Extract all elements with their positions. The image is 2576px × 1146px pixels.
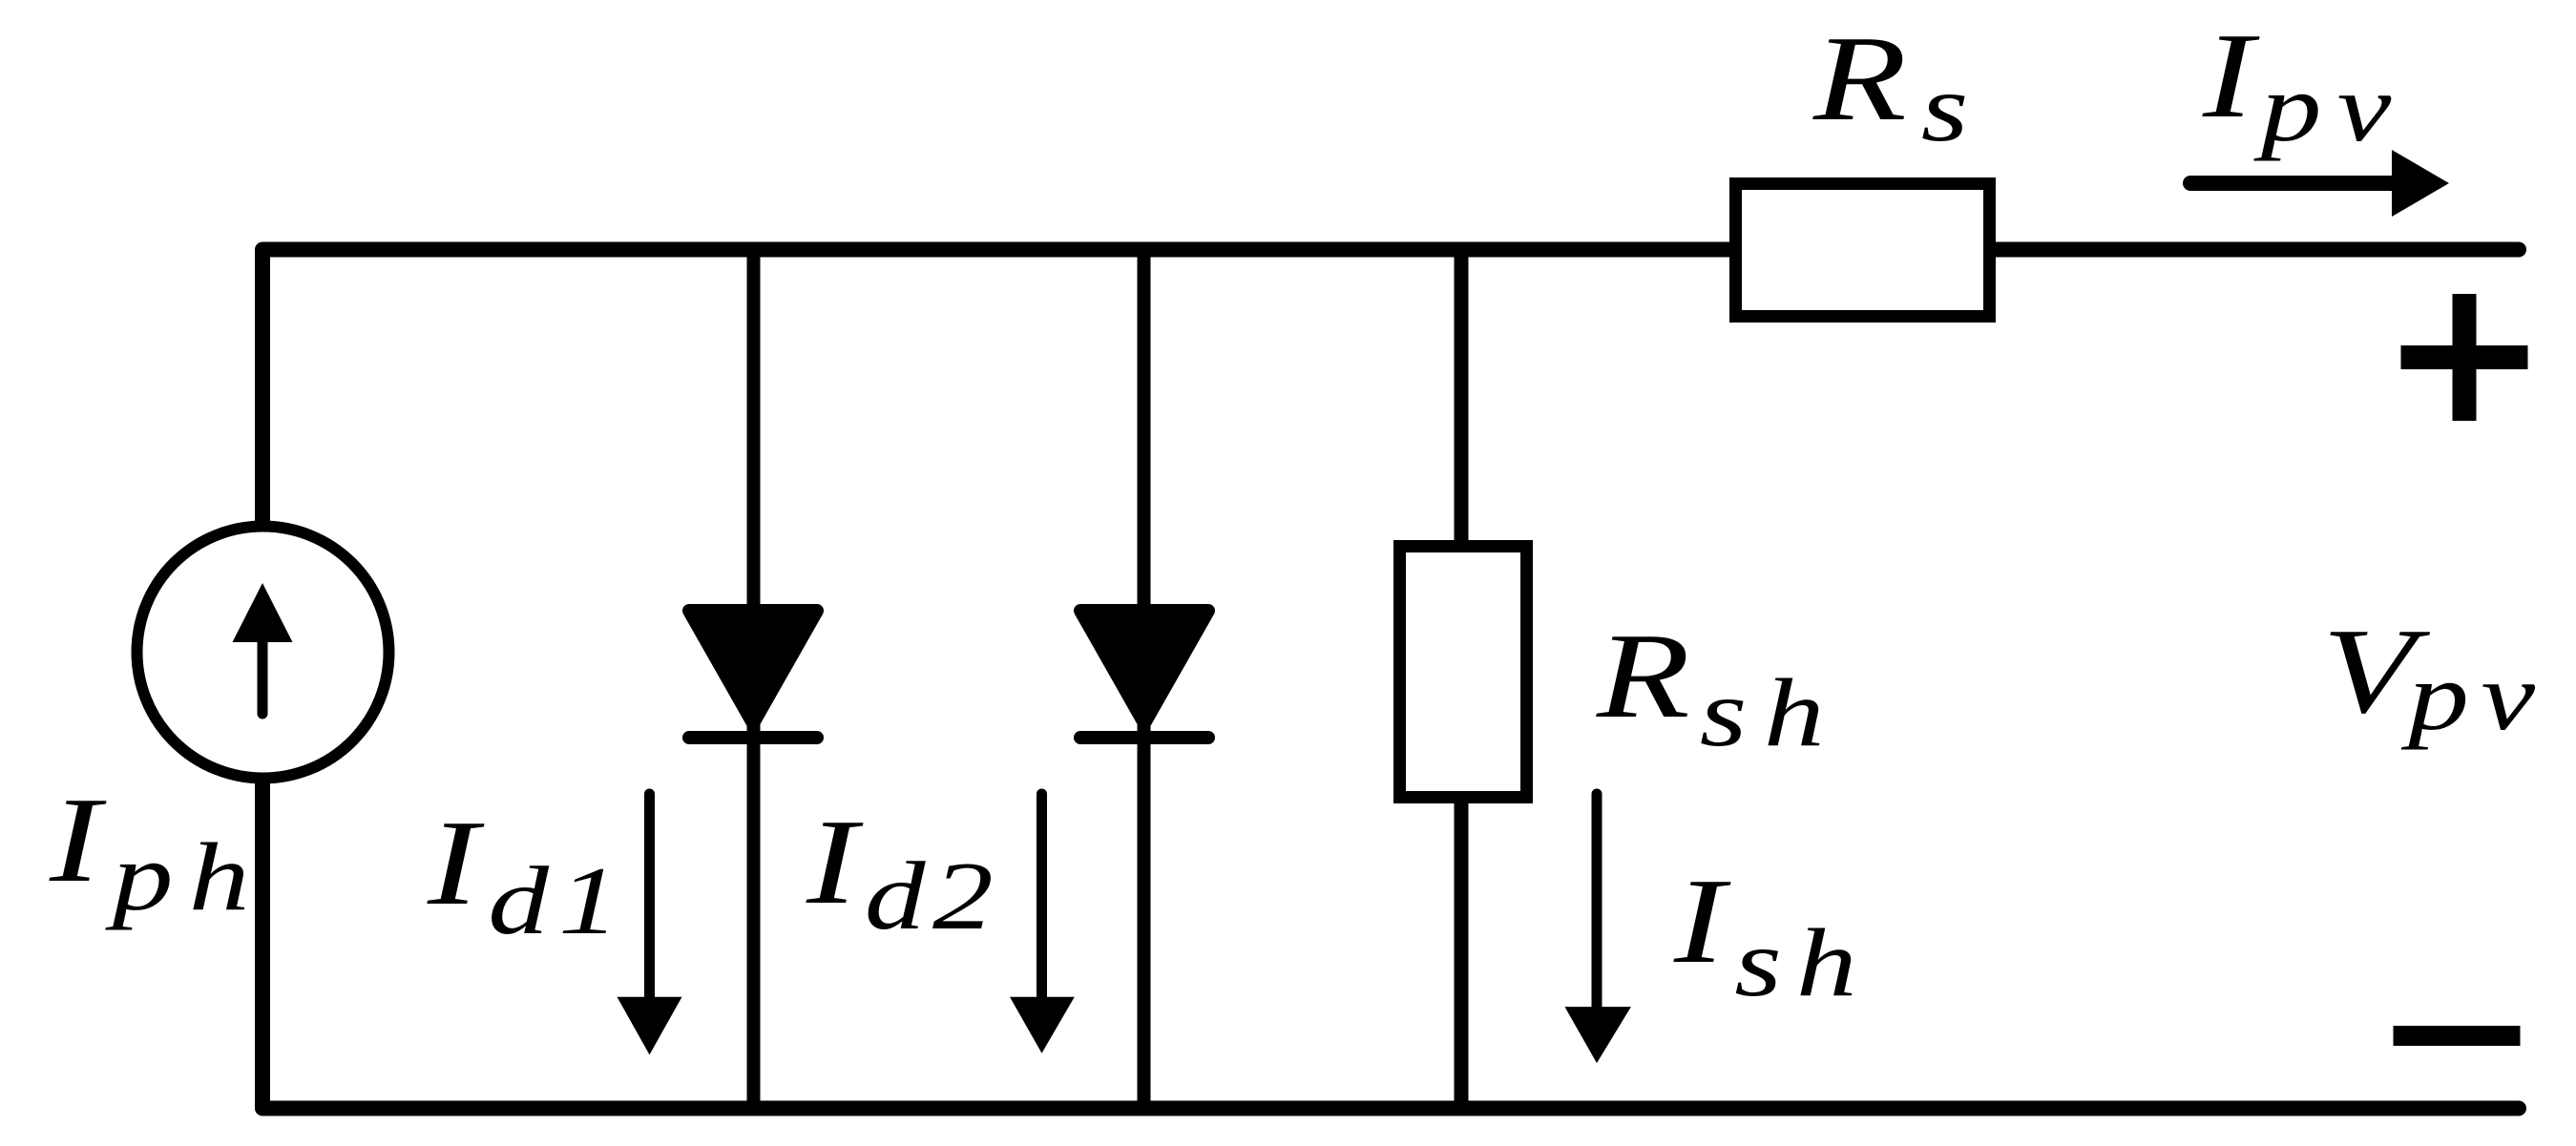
current source arrow (up) [233, 583, 293, 714]
label Ish [1673, 854, 1872, 1016]
label Vpv [2322, 604, 2547, 750]
plus terminal symbol [2401, 294, 2528, 421]
wire top bus from Rs to right output terminal [1993, 242, 2519, 258]
wire diode D1 branch [747, 250, 761, 1109]
label Rs [1812, 11, 1976, 161]
label Id1 [427, 796, 629, 954]
wire Rsh branch [1455, 250, 1469, 1109]
label Id2 [806, 795, 1000, 949]
current source Iph (circle) [137, 527, 389, 779]
diode D2 (triangle + cathode bar) [1080, 611, 1208, 738]
arrow Ipv (current out, to the right) [2190, 150, 2449, 217]
resistor Rsh (vertical rectangle) [1400, 547, 1527, 798]
label Iph [49, 773, 265, 930]
arrow Id2 (down) [1010, 794, 1075, 1053]
arrow Ish (down) [1565, 794, 1631, 1063]
arrow Id1 (down) [618, 794, 682, 1054]
wire top bus from left corner to Rs [262, 250, 1733, 531]
wire bottom bus from left corner to right output terminal [262, 778, 2519, 1109]
diode D1 (triangle + cathode bar) [689, 611, 817, 738]
label Ipv [2202, 9, 2407, 161]
minus terminal symbol [2394, 1026, 2521, 1046]
label Rsh [1596, 609, 1841, 766]
wire diode D2 branch [1138, 250, 1151, 1109]
resistor Rs (horizontal rectangle) [1736, 184, 1990, 317]
